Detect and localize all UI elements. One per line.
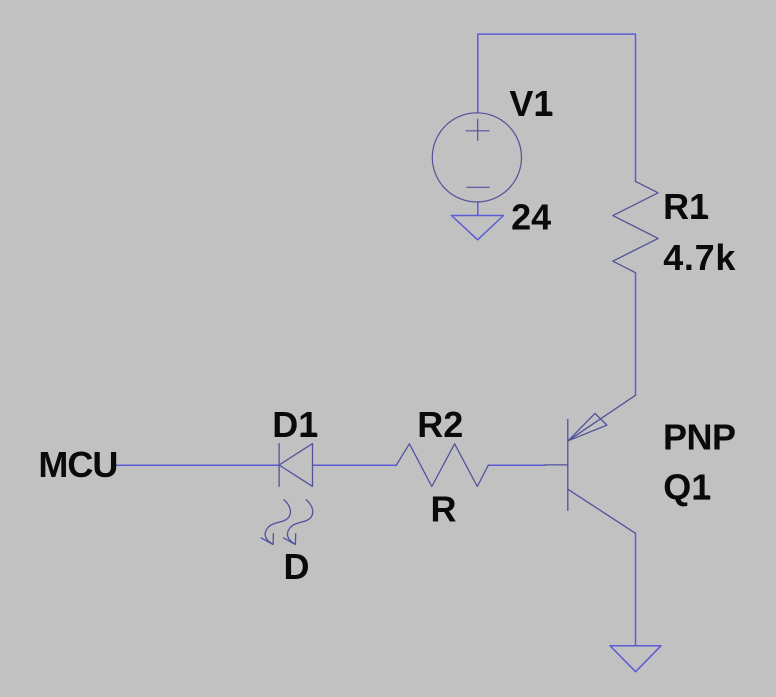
svg-text:R1: R1 [663,186,709,227]
svg-text:D: D [284,546,310,587]
svg-text:Q1: Q1 [663,467,711,508]
svg-text:R2: R2 [417,404,463,445]
svg-text:D1: D1 [272,404,318,445]
svg-text:24: 24 [511,197,551,238]
svg-text:R: R [431,489,457,530]
svg-text:4.7k: 4.7k [663,237,736,278]
svg-text:MCU: MCU [38,444,117,485]
svg-text:PNP: PNP [663,417,736,458]
svg-text:V1: V1 [509,83,553,124]
